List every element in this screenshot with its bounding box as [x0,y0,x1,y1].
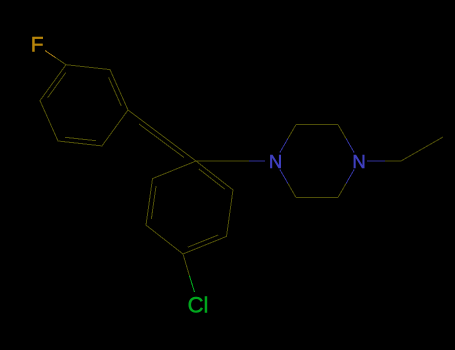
svg-text:F: F [31,34,44,57]
svg-text:Cl: Cl [188,293,209,318]
svg-text:N: N [352,151,365,172]
svg-text:N: N [269,151,282,172]
